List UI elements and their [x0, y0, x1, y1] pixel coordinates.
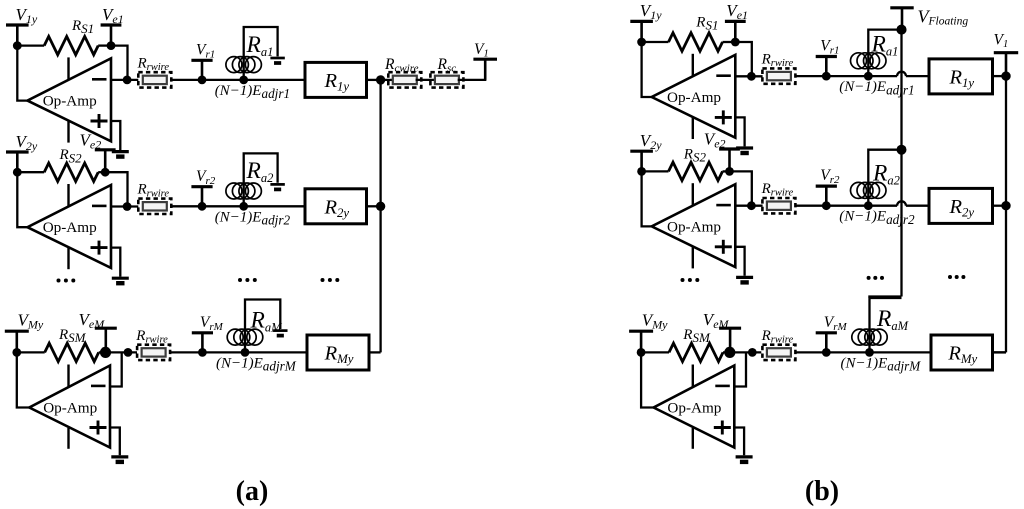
- op-amp U1a: [27, 57, 111, 142]
- node Vr1: [822, 72, 831, 81]
- resistor Rrwire (row 1 b): [762, 68, 795, 83]
- ground op-amp U2b non-inverting input: [736, 277, 753, 282]
- svg-text:(N−1)Eadjr1: (N−1)Eadjr1: [839, 79, 914, 97]
- ground op-amp UMb non-inverting input: [736, 457, 753, 462]
- node VMy junction: [637, 348, 646, 357]
- wire EMF node to hop row2 (b): [868, 205, 897, 207]
- ellipsis below op-amp 2 (b): [681, 278, 700, 282]
- node inverting input junction Mb: [748, 348, 757, 357]
- node inverting input junction 1b: [747, 72, 756, 81]
- wire Rsc to V1 (a): [458, 59, 486, 80]
- node Eadjr1 junction: [864, 72, 873, 81]
- wire feedback VMy to op-amp output Ma: [17, 352, 30, 407]
- ground op-amp U1b non-inverting input: [736, 148, 753, 153]
- svg-text:Op-Amp: Op-Amp: [667, 218, 721, 235]
- wire Ve1 node to inverting input: [111, 46, 128, 80]
- node inverting input junction 1a: [123, 76, 132, 85]
- svg-text:Op-Amp: Op-Amp: [667, 400, 721, 417]
- resistor Rrwire (row 1 a): [138, 72, 171, 87]
- resistor RaM loop wire (a): [245, 300, 280, 353]
- node inverting input junction 2a: [123, 202, 132, 211]
- wire V2y node to RS2: [642, 170, 669, 172]
- wire Ve2 node to inverting input: [105, 172, 127, 206]
- wire RS2 to Ve2 node: [723, 170, 730, 172]
- wire V2y node to RS2: [17, 171, 44, 173]
- wire RMy to right bus (b): [993, 351, 1007, 353]
- wire Rcwire to Rsc: [416, 79, 436, 81]
- ground Ra1: [270, 58, 284, 63]
- svg-text:RSM: RSM: [682, 327, 711, 345]
- wire V1y node to RS1: [17, 44, 44, 46]
- wire hop over floating bus row2 (b): [897, 201, 906, 205]
- node V1y junction: [13, 41, 22, 50]
- node VeM junction: [724, 347, 735, 358]
- resistor RS2: [669, 162, 723, 180]
- resistor Ra1 loop wire (b): [868, 30, 901, 77]
- wire feedback V1y to op-amp output: [642, 42, 652, 97]
- wire Rrwire to Vr2 a: [171, 205, 202, 207]
- resistor RaM loop wire (b): [870, 298, 902, 352]
- node Eadjr1 junction: [239, 76, 248, 85]
- resistor Rrwire (row 2 b): [762, 198, 795, 213]
- wire right bus to RMy (b): [993, 351, 1007, 353]
- wire RS2 to Ve2 node: [98, 171, 105, 173]
- wire RMy to bus a: [369, 351, 381, 353]
- node Eadjr2 junction: [239, 202, 248, 211]
- wire VrM to EMF node: [202, 351, 245, 353]
- wire Ve2 node to inverting input: [730, 171, 752, 205]
- svg-text:RS1: RS1: [695, 15, 718, 33]
- terminal Vr1: [816, 57, 837, 77]
- op-amp U1b: [652, 54, 736, 139]
- wire EMF node to RMy (b): [870, 351, 932, 353]
- node EadjrM junction: [865, 348, 874, 357]
- node Eadjr2 junction: [864, 201, 873, 210]
- wire non-inverting input to ground 2a: [111, 248, 120, 277]
- svg-text:(N−1)Eadjr2: (N−1)Eadjr2: [215, 209, 291, 227]
- wire VMy node to RSM: [17, 351, 45, 353]
- wire feedback V1y to op-amp output: [17, 46, 27, 101]
- ellipsis below op-amp 2 (a): [57, 279, 76, 283]
- wire Vr2 to EMF node: [826, 205, 868, 207]
- wire inverting input row 1b: [735, 75, 762, 77]
- wire R1y to right bus (b): [993, 75, 1007, 77]
- terminal VeM: [719, 328, 741, 352]
- wire EMF node to R1y: [244, 79, 305, 81]
- wire inverting input row 2b: [735, 205, 762, 207]
- node VrM: [822, 348, 831, 357]
- svg-text:RSM: RSM: [58, 327, 87, 345]
- wire output bus (a): [379, 80, 381, 353]
- node bus row2 (a): [376, 202, 385, 211]
- wire floating bus (b): [900, 30, 902, 297]
- resistor RS2: [44, 163, 98, 181]
- wire inverting input riser Mb: [734, 352, 746, 386]
- wire VMy node to RSM: [641, 351, 669, 353]
- terminal Ve1: [101, 25, 122, 46]
- node V2y junction: [13, 168, 22, 177]
- terminal V2y: [6, 152, 29, 172]
- EMF source (N-1)EadjrM coils: [227, 329, 263, 345]
- terminal V2y: [630, 151, 653, 171]
- terminal V1y: [630, 21, 653, 42]
- svg-text:RS2: RS2: [683, 146, 707, 164]
- resistor RS1: [44, 36, 98, 54]
- wire RSM to VeM node: [723, 351, 730, 353]
- ground op-amp UMa non-inverting input: [111, 457, 128, 462]
- resistor RSM: [45, 343, 99, 361]
- op-amp U2b: [652, 183, 736, 268]
- wire inverting input row 2a: [111, 205, 138, 207]
- EMF source (N-1)Eadjr1 coils: [226, 57, 262, 73]
- node VrM: [198, 348, 207, 357]
- wire hop to R1y (b): [906, 75, 929, 77]
- ellipsis right column (a): [321, 278, 340, 282]
- svg-text:Op-Amp: Op-Amp: [43, 219, 97, 236]
- node Ve2 junction: [725, 167, 734, 176]
- svg-text:RS2: RS2: [59, 147, 83, 165]
- terminal Ve1: [725, 21, 746, 42]
- node Ve2 junction: [101, 168, 110, 177]
- terminal V1 (a): [473, 59, 497, 80]
- EMF source (N-1)Eadjr1 coils: [851, 53, 887, 69]
- terminal Vr2: [191, 187, 212, 207]
- wire RSM to VeM node: [99, 351, 106, 353]
- terminal VrM: [816, 333, 837, 353]
- wire Rrwire to VrM a: [170, 351, 202, 353]
- resistor Rrwire (row M a): [137, 345, 170, 360]
- wire feedback VMy to op-amp output Mb: [641, 352, 654, 407]
- resistor RMy (a): [307, 335, 369, 370]
- node Vr1: [198, 76, 207, 85]
- terminal Vr2: [816, 186, 837, 206]
- wire Vr1 to EMF node: [202, 79, 244, 81]
- resistor R2y: [305, 189, 367, 224]
- wire Rrwire to Vr2 b: [795, 205, 826, 207]
- terminal Vr1: [191, 60, 212, 80]
- wire Ve1 node to inverting input: [735, 42, 752, 76]
- svg-text:(b): (b): [805, 476, 839, 507]
- ellipsis right column (b): [948, 275, 965, 279]
- wire feedback V2y to op-amp output: [642, 171, 652, 226]
- terminal VMy: [629, 331, 653, 352]
- svg-text:(a): (a): [236, 476, 269, 507]
- svg-text:Op-Amp: Op-Amp: [43, 400, 97, 417]
- node V1y junction: [637, 38, 646, 47]
- ground Ra2: [270, 184, 284, 189]
- wire floating bus into RaM (b): [868, 295, 901, 297]
- wire bus to Rcwire (a): [381, 79, 394, 81]
- terminal Ve2: [95, 150, 116, 172]
- wire Rrwire to Vr1 a: [171, 79, 202, 81]
- wire Rrwire to Vr1 b: [795, 75, 826, 77]
- node inverting input junction Ma: [124, 348, 133, 357]
- ellipsis mid column (b): [867, 276, 884, 280]
- op-amp UMb: [654, 365, 735, 449]
- node floating bus top (b): [897, 25, 907, 35]
- svg-text:(N−1)EadjrM: (N−1)EadjrM: [216, 355, 297, 373]
- terminal V1 (b): [994, 53, 1018, 76]
- resistor Rrwire (row M b): [762, 345, 795, 360]
- wire EMF node to RMy (a): [245, 351, 307, 353]
- resistor R2y (b): [929, 188, 993, 223]
- node VeM junction: [100, 347, 111, 358]
- wire EMF node to R2y: [244, 205, 305, 207]
- node VMy junction: [12, 348, 21, 357]
- wire hop over floating bus row1 (b): [897, 72, 906, 76]
- terminal VrM: [192, 333, 213, 353]
- resistor Rsc: [430, 72, 463, 87]
- wire RS1 to Ve1 node: [723, 41, 736, 43]
- wire R2y to right bus (b): [993, 205, 1007, 207]
- node right bus row2 (b): [1001, 201, 1010, 210]
- ellipsis mid column (a): [238, 278, 257, 282]
- svg-text:Op-Amp: Op-Amp: [43, 93, 97, 110]
- node floating bus Ra1 (b): [897, 25, 907, 35]
- wire VrM to EMF node: [826, 351, 869, 353]
- resistor Rrwire (row 2 a): [138, 199, 171, 214]
- svg-text:(N−1)Eadjr1: (N−1)Eadjr1: [215, 83, 290, 101]
- wire non-inverting input to ground Mb: [734, 428, 744, 456]
- wire VeM node to Rrwire b: [730, 351, 762, 353]
- node EadjrM junction: [241, 348, 250, 357]
- ground op-amp U1a non-inverting input: [112, 152, 129, 157]
- wire Vr1 to EMF node: [826, 75, 868, 77]
- svg-text:(N−1)Eadjr2: (N−1)Eadjr2: [839, 209, 915, 227]
- node inverting input junction 2b: [747, 201, 756, 210]
- wire non-inverting input to ground 1b: [735, 117, 744, 146]
- terminal Ve2: [719, 149, 740, 171]
- resistor Ra2 loop wire: [244, 153, 278, 206]
- resistor R1y: [305, 62, 367, 97]
- svg-text:Op-Amp: Op-Amp: [667, 89, 721, 106]
- wire inverting input riser Ma: [110, 352, 122, 386]
- terminal VMy: [5, 331, 29, 352]
- resistor R1y (b): [929, 59, 993, 94]
- node Vr2: [822, 201, 831, 210]
- node floating bus Ra2 (b): [897, 145, 907, 155]
- ground op-amp U2a non-inverting input: [112, 278, 129, 283]
- resistor RS1: [669, 33, 723, 51]
- svg-text:(N−1)EadjrM: (N−1)EadjrM: [841, 355, 922, 373]
- wire non-inverting input to ground 2b: [735, 247, 744, 276]
- wire non-inverting input to ground 1a: [111, 121, 120, 150]
- wire non-inverting input to ground Ma: [110, 428, 120, 456]
- EMF source (N-1)Eadjr2 coils: [851, 182, 887, 198]
- wire R2y to bus a: [367, 205, 381, 207]
- node Ve1 junction: [107, 41, 116, 50]
- terminal V1y: [6, 25, 29, 46]
- EMF source (N-1)Eadjr2 coils: [226, 183, 262, 199]
- op-amp UMa: [29, 365, 110, 449]
- node bus row1 (a): [376, 75, 385, 84]
- resistor Ra1 loop wire: [244, 27, 278, 80]
- wire inverting input row 1a: [111, 79, 138, 81]
- wire V1y node to RS1: [642, 41, 669, 43]
- terminal VFloating: [890, 8, 913, 30]
- resistor RSM: [669, 343, 723, 361]
- resistor Ra2 loop wire (b): [868, 150, 901, 206]
- wire R1y to bus a: [367, 79, 381, 81]
- wire feedback V2y to op-amp output: [17, 172, 27, 227]
- resistor Rcwire: [388, 72, 421, 87]
- wire Vr2 to EMF node: [202, 205, 244, 207]
- op-amp U2a: [27, 184, 111, 269]
- ground RaM (a): [273, 331, 287, 336]
- node Ve1 junction: [731, 38, 740, 47]
- node right bus row1 (b): [1001, 71, 1010, 80]
- resistor RMy (b): [931, 335, 993, 370]
- wire EMF node to hop row1 (b): [868, 75, 897, 77]
- wire hop to R2y (b): [906, 205, 929, 207]
- node Vr2: [198, 202, 207, 211]
- EMF source (N-1)EadjrM coils: [852, 329, 887, 345]
- wire VeM node to Rrwire a: [106, 351, 138, 353]
- node V2y junction: [637, 167, 646, 176]
- svg-text:RS1: RS1: [71, 18, 94, 36]
- wire RS1 to Ve1 node: [98, 44, 111, 46]
- wire Rrwire to VrM b: [795, 351, 826, 353]
- wire right bus (b): [1005, 76, 1007, 352]
- terminal VeM: [95, 328, 117, 352]
